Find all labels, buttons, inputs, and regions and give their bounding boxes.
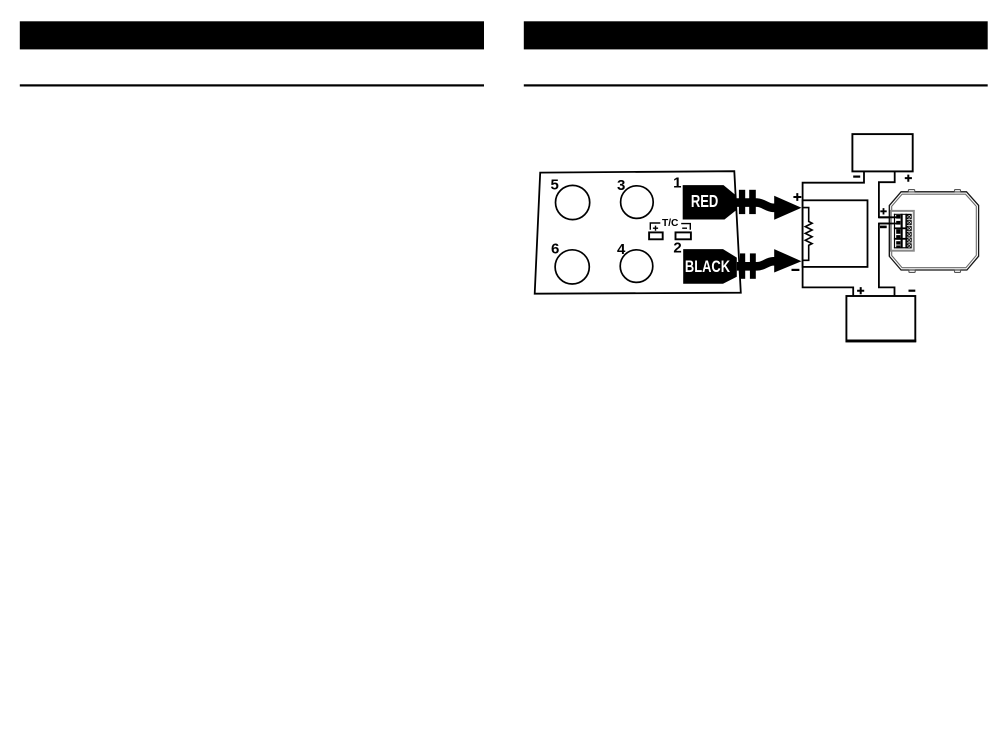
- BLACK crimp band 1: [740, 253, 745, 278]
- thermostat octagonal body inner outline: [892, 194, 977, 268]
- heat anticipator resistor box: [803, 200, 868, 267]
- terminal block screws: [907, 215, 911, 248]
- T/C plus terminal box: [649, 232, 663, 239]
- terminal hole 3: [621, 186, 654, 219]
- svg-text:RED: RED: [691, 191, 718, 211]
- resistor element: [803, 208, 812, 261]
- thermostat sub-base panel: [535, 171, 741, 294]
- wire stub into thermostat plus terminal: [879, 216, 899, 218]
- svg-text:4: 4: [617, 241, 626, 258]
- plus label at top battery right terminal: [905, 175, 912, 182]
- header rule left page: [20, 84, 484, 86]
- header rule right page: [524, 84, 988, 86]
- minus label at thermostat terminal: [880, 226, 887, 229]
- svg-text:T/C: T/C: [662, 218, 679, 229]
- bottom battery box: [846, 296, 915, 341]
- RED wire: [736, 203, 775, 208]
- RED arrowhead: [774, 196, 801, 220]
- RED crimp band 2: [749, 190, 756, 214]
- header bar right page: [524, 21, 988, 49]
- svg-text:1: 1: [673, 175, 681, 192]
- T/C plus sign: [653, 226, 658, 231]
- svg-text:BLACK: BLACK: [685, 257, 731, 276]
- top battery box: [852, 134, 912, 171]
- terminal hole 5: [556, 185, 590, 219]
- svg-text:6: 6: [551, 240, 559, 257]
- terminal housing recess: [891, 211, 914, 251]
- wire stub into thermostat minus terminal: [879, 223, 899, 225]
- RED wire lug: [683, 185, 736, 219]
- BLACK crimp band 2: [750, 253, 756, 278]
- T/C minus terminal box: [676, 232, 691, 239]
- mounting tab bottom left: [909, 270, 915, 272]
- T/C minus sign: [682, 227, 687, 229]
- minus label at bottom battery right terminal: [909, 290, 916, 292]
- terminal block grid: [894, 214, 912, 249]
- wire from top battery plus to thermostat plus terminal: [879, 171, 899, 217]
- header bar left page: [20, 21, 484, 49]
- RED crimp band 1: [739, 190, 745, 214]
- svg-text:2: 2: [673, 240, 681, 257]
- BLACK arrowhead: [774, 249, 801, 272]
- svg-text:5: 5: [551, 177, 559, 194]
- thermostat octagonal body outer outline: [889, 192, 978, 270]
- bottom battery box thick bottom edge: [846, 340, 917, 343]
- wire from thermostat minus terminal to bottom battery minus: [879, 224, 899, 297]
- plus label at bottom battery left terminal: [857, 287, 864, 294]
- terminal hole 4: [620, 250, 653, 283]
- wire from battery minus through resistor box side to bottom battery plus: [803, 171, 864, 296]
- T/C minus bracket: [681, 224, 690, 230]
- BLACK wire lug: [683, 249, 737, 284]
- plus label at resistor top: [793, 193, 801, 201]
- minus label at top battery left terminal: [853, 176, 860, 178]
- plus label at thermostat terminal: [880, 208, 886, 214]
- mounting tab top right: [955, 190, 961, 192]
- thermostat body left edge over recess: [888, 205, 890, 256]
- terminal hole 6: [555, 250, 589, 284]
- mounting tab bottom right: [955, 270, 961, 272]
- minus label at resistor bottom: [792, 269, 800, 271]
- svg-text:3: 3: [617, 177, 625, 194]
- mounting tab top left: [908, 190, 914, 192]
- T/C plus bracket: [650, 223, 660, 230]
- BLACK wire: [737, 261, 775, 266]
